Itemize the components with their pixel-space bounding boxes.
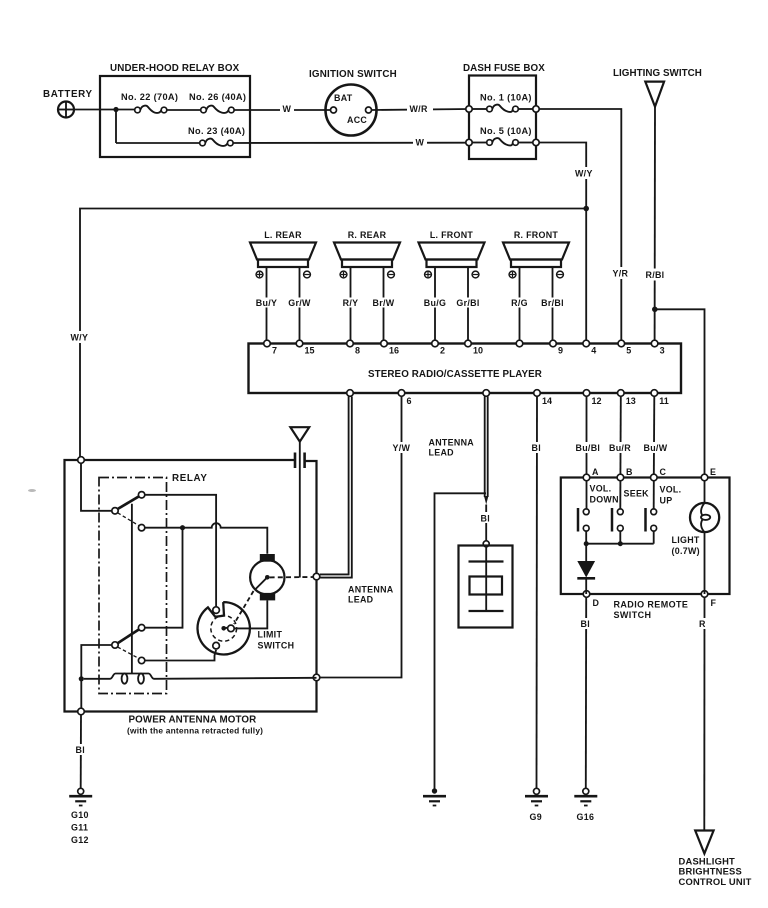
svg-text:POWER ANTENNA MOTOR: POWER ANTENNA MOTOR <box>129 715 257 726</box>
svg-text:7: 7 <box>272 346 277 356</box>
svg-text:VOL.: VOL. <box>660 485 682 495</box>
svg-text:DOWN: DOWN <box>590 495 619 505</box>
terminal Y/W coil on box right <box>313 674 320 681</box>
pin 13 radio bottom <box>618 390 625 397</box>
svg-text:9: 9 <box>558 346 563 356</box>
pin 2 radio top <box>432 340 439 347</box>
svg-text:(0.7W): (0.7W) <box>672 546 700 556</box>
svg-text:F: F <box>711 598 717 608</box>
wire long feed to power antenna (left) <box>80 209 586 461</box>
condenser (noise suppressor) <box>459 541 513 628</box>
svg-text:Gr/Bl: Gr/Bl <box>456 298 479 308</box>
svg-text:Bl: Bl <box>532 443 541 453</box>
wire Bl from lead tip to condenser <box>485 505 487 541</box>
pin (antenna) radio bottom <box>483 390 490 397</box>
mechanical link motor shaft to antenna (dashed) <box>270 576 313 578</box>
ground G9 <box>525 788 548 822</box>
svg-text:W: W <box>283 104 292 114</box>
svg-text:No. 26 (40A): No. 26 (40A) <box>189 92 246 102</box>
svg-text:G16: G16 <box>577 812 595 822</box>
svg-text:DASH FUSE BOX: DASH FUSE BOX <box>463 63 545 74</box>
svg-text:No. 22 (70A): No. 22 (70A) <box>121 92 178 102</box>
radio remote switch box <box>561 478 730 621</box>
wire battery to under-hood relay box <box>74 109 100 111</box>
wire L. REAR - lead Gr/W to radio pin 15 <box>299 267 301 344</box>
wire L. FRONT - lead Gr/Bl to radio pin 10 <box>467 267 469 344</box>
node W/Y junction <box>583 206 589 212</box>
ignition switch <box>309 69 397 136</box>
battery <box>43 89 93 118</box>
node bus junction B <box>618 541 623 546</box>
relay box (dash-dot) <box>99 473 208 694</box>
wire switch1 bottom contact to motor (hops over) <box>145 523 267 554</box>
relay switch 1 <box>112 492 145 531</box>
wire branch to radio remote switch E <box>655 309 705 477</box>
switch VOL.DOWN <box>578 481 619 544</box>
wire R. REAR + lead R/Y to radio pin 8 <box>350 267 352 344</box>
svg-text:R/G: R/G <box>511 298 528 308</box>
ground (antenna shield) <box>423 788 446 805</box>
pin 4 radio top <box>583 340 590 347</box>
svg-text:Gr/W: Gr/W <box>288 298 311 308</box>
limit switch <box>198 602 295 654</box>
wire antenna lead 1 (coax from radio to motor unit) <box>320 397 352 578</box>
terminal antenna lead on box right <box>313 573 320 580</box>
wire pin 13 Bu/R to terminal B <box>619 397 621 478</box>
speaker R. FRONT <box>503 230 569 278</box>
fuse No. 1 (10A) <box>466 93 539 113</box>
node junction in relay box <box>113 107 118 112</box>
svg-text:3: 3 <box>660 346 665 356</box>
node R/Bl branch junction <box>652 307 658 313</box>
svg-text:13: 13 <box>626 396 636 406</box>
pin 10 radio top <box>465 340 472 347</box>
switch SEEK <box>612 481 649 544</box>
terminal B <box>617 474 624 481</box>
wire W/Y terminal down to relay switch 1 common <box>81 463 112 511</box>
svg-text:2: 2 <box>440 346 445 356</box>
svg-text:R. REAR: R. REAR <box>348 230 387 240</box>
svg-text:R/Y: R/Y <box>343 298 359 308</box>
svg-text:Bu/Y: Bu/Y <box>256 298 277 308</box>
svg-text:G11: G11 <box>71 823 88 833</box>
svg-text:11: 11 <box>659 396 669 406</box>
wire L. REAR + lead Bu/Y to radio pin 7 <box>266 267 268 344</box>
svg-text:LIGHTING SWITCH: LIGHTING SWITCH <box>613 68 702 79</box>
relay coil <box>84 674 317 684</box>
svg-text:D: D <box>593 598 600 608</box>
dash fuse box <box>463 63 545 159</box>
svg-text:Y/W: Y/W <box>393 443 411 453</box>
svg-text:RADIO REMOTE: RADIO REMOTE <box>614 600 689 610</box>
fuse No. 22 (70A) <box>121 92 178 113</box>
svg-text:UP: UP <box>660 496 673 506</box>
pin 14 radio bottom <box>534 390 541 397</box>
svg-text:RELAY: RELAY <box>172 473 208 484</box>
switch VOL.UP <box>646 481 682 544</box>
svg-text:8: 8 <box>355 346 360 356</box>
pin 5 radio top <box>618 340 625 347</box>
pin 6 radio bottom <box>398 390 405 397</box>
wire into box to fuse No.22 <box>100 109 135 111</box>
pin (antenna) radio bottom <box>347 390 354 397</box>
pin 3 radio top <box>651 340 658 347</box>
svg-text:LIGHT: LIGHT <box>672 535 700 545</box>
arrow to dashlight brightness control unit <box>679 831 752 888</box>
svg-text:W: W <box>416 138 425 148</box>
svg-text:SWITCH: SWITCH <box>258 641 295 651</box>
svg-text:CONTROL UNIT: CONTROL UNIT <box>679 876 752 887</box>
node bus junction A <box>584 541 589 546</box>
fuse No. 23 (40A) <box>188 126 245 146</box>
svg-text:W/R: W/R <box>410 104 428 114</box>
svg-text:E: E <box>710 467 716 477</box>
speaker L. FRONT <box>419 230 485 278</box>
wire fuse26 to box edge and on to ignition switch, label W <box>234 109 330 111</box>
svg-text:W/Y: W/Y <box>575 169 593 179</box>
svg-text:12: 12 <box>592 396 602 406</box>
wire lighting switch R/Bl to radio pin 3 <box>654 107 656 344</box>
pin 15 radio top <box>296 340 303 347</box>
wire motor bottom to limit switch wiper <box>234 600 267 628</box>
wire switch1 top contact to limit switch upper terminal <box>145 495 216 607</box>
svg-text:C: C <box>660 467 667 477</box>
wire F to dashlight control, label R <box>703 597 705 830</box>
svg-text:5: 5 <box>626 346 631 356</box>
wire fuse No.1 to Y/R drop to radio pin 5 <box>539 109 621 344</box>
ground G16 <box>574 788 597 822</box>
pin 9 radio top <box>550 340 557 347</box>
antenna lead 2 label <box>348 585 394 605</box>
wire junction down to fuse No.23 <box>115 110 117 144</box>
wire switch2 bottom contact to limit switch lower terminal <box>145 650 216 661</box>
diode D1 <box>577 544 595 594</box>
svg-text:Bl: Bl <box>581 619 590 629</box>
antenna mast feed-through bars <box>295 453 305 469</box>
svg-text:14: 14 <box>542 396 552 406</box>
terminal D <box>583 591 590 598</box>
relay actuator link (to coil) <box>131 504 133 673</box>
svg-text:ANTENNA: ANTENNA <box>429 438 475 448</box>
wire fuse No.5 to W/Y drop to radio pin 4 <box>539 143 586 344</box>
terminal F <box>701 591 708 598</box>
wire fuse23 to dash fuse box, label W <box>233 142 469 144</box>
svg-text:Bu/W: Bu/W <box>644 443 668 453</box>
svg-text:BATTERY: BATTERY <box>43 89 93 100</box>
terminal W/Y on box top <box>78 457 85 464</box>
svg-text:L. REAR: L. REAR <box>264 230 302 240</box>
stereo radio/cassette player U1 <box>249 344 682 394</box>
terminal A <box>583 474 590 481</box>
wire ACC to dash fuse box, label W/R <box>372 109 470 110</box>
pin 11 radio bottom <box>651 390 658 397</box>
svg-text:UNDER-HOOD RELAY BOX: UNDER-HOOD RELAY BOX <box>110 63 240 74</box>
svg-text:B: B <box>626 467 633 477</box>
svg-text:A: A <box>592 467 599 477</box>
svg-text:(with the antenna retracted fu: (with the antenna retracted fully) <box>127 726 263 736</box>
svg-text:L. FRONT: L. FRONT <box>430 230 474 240</box>
speaker L. REAR <box>250 230 316 278</box>
svg-text:10: 10 <box>473 346 483 356</box>
scan speck artifact <box>28 489 36 492</box>
wire fuse22 to fuse26 <box>167 109 201 111</box>
pin 8 radio top <box>347 340 354 347</box>
svg-text:W/Y: W/Y <box>71 333 89 343</box>
wire Y/W pin 6 to relay coil terminal <box>320 396 402 678</box>
svg-text:G12: G12 <box>71 835 89 845</box>
svg-text:6: 6 <box>407 396 412 406</box>
svg-text:Bl: Bl <box>76 745 85 755</box>
svg-text:R. FRONT: R. FRONT <box>514 230 559 240</box>
node coil junction <box>79 676 84 681</box>
ground G10 G11 G12 <box>69 788 92 845</box>
wire box bottom terminal to ground, label Bl <box>80 715 82 788</box>
lighting switch <box>613 68 702 107</box>
svg-text:Y/R: Y/R <box>613 269 629 279</box>
pin (unlabeled) radio top <box>516 340 523 347</box>
svg-text:R/Bl: R/Bl <box>646 270 665 280</box>
pin 12 radio bottom <box>583 390 590 397</box>
svg-text:4: 4 <box>591 346 596 356</box>
svg-text:IGNITION SWITCH: IGNITION SWITCH <box>309 69 397 80</box>
relay switch 2 <box>112 625 145 664</box>
antenna lead label <box>429 438 475 458</box>
fuse No. 5 (10A) <box>466 126 539 146</box>
svg-text:LEAD: LEAD <box>348 595 374 605</box>
wire antenna lead 2 (coax stub from radio) <box>484 397 488 505</box>
svg-text:LIMIT: LIMIT <box>258 630 283 640</box>
svg-text:STEREO RADIO/CASSETTE PLAYER: STEREO RADIO/CASSETTE PLAYER <box>368 369 542 380</box>
svg-text:Bu/R: Bu/R <box>609 443 631 453</box>
wire shield branch to ground <box>435 493 487 788</box>
svg-text:Bu/G: Bu/G <box>424 298 446 308</box>
svg-text:Br/Bl: Br/Bl <box>541 298 564 308</box>
under-hood relay box <box>100 63 250 157</box>
svg-text:16: 16 <box>389 346 399 356</box>
svg-text:LEAD: LEAD <box>429 448 455 458</box>
terminal C <box>651 474 658 481</box>
pin 7 radio top <box>264 340 271 347</box>
svg-text:R: R <box>699 619 706 629</box>
svg-text:Bu/Bl: Bu/Bl <box>576 443 601 453</box>
node junction on switch1 bottom wire <box>180 525 185 530</box>
svg-text:BRIGHTNESS: BRIGHTNESS <box>679 866 742 877</box>
wire pin 14 Bl to ground G9 <box>536 397 539 789</box>
svg-text:No. 23 (40A): No. 23 (40A) <box>188 126 245 136</box>
wire pin 11 Bu/W to terminal C <box>653 397 656 478</box>
terminal on box bottom <box>78 708 85 715</box>
wire L. FRONT + lead Bu/G to radio pin 2 <box>434 267 436 344</box>
fuse No. 26 (40A) <box>189 92 246 113</box>
svg-text:Br/W: Br/W <box>373 298 395 308</box>
svg-text:ACC: ACC <box>347 115 367 125</box>
wire D to ground G16, label Bl <box>585 597 587 788</box>
wire switch2 common to bottom terminal <box>81 645 112 708</box>
mechanical link motor to limit switch (dashed) <box>234 591 254 624</box>
antenna mast symbol <box>290 427 309 577</box>
svg-text:ANTENNA: ANTENNA <box>348 585 394 595</box>
light bulb (0.7W) <box>672 481 720 594</box>
svg-text:15: 15 <box>305 346 315 356</box>
wire switch commons bus <box>586 543 654 545</box>
motor M1 <box>250 554 284 600</box>
svg-text:Bl: Bl <box>481 514 490 524</box>
svg-text:SEEK: SEEK <box>624 489 650 499</box>
terminal E <box>701 474 708 481</box>
pin 16 radio top <box>381 340 388 347</box>
svg-text:G9: G9 <box>530 812 542 822</box>
svg-text:No. 5 (10A): No. 5 (10A) <box>480 126 532 136</box>
wire R. FRONT + lead R/G to radio pin (unlabeled) <box>519 267 521 344</box>
power antenna motor box <box>65 460 317 736</box>
wire junction down to switch 2 top contact <box>145 528 183 628</box>
wire pin 12 Bu/Bl to terminal A <box>586 397 588 478</box>
wire R. FRONT - lead Br/Bl to radio pin 9 <box>552 267 554 344</box>
wire R. REAR - lead Br/W to radio pin 16 <box>383 267 385 344</box>
svg-text:SWITCH: SWITCH <box>614 610 652 620</box>
svg-text:BAT: BAT <box>334 93 353 103</box>
svg-text:No. 1 (10A): No. 1 (10A) <box>480 93 532 103</box>
svg-text:VOL.: VOL. <box>590 484 612 494</box>
speaker R. REAR <box>334 230 400 278</box>
svg-text:G10: G10 <box>71 810 89 820</box>
